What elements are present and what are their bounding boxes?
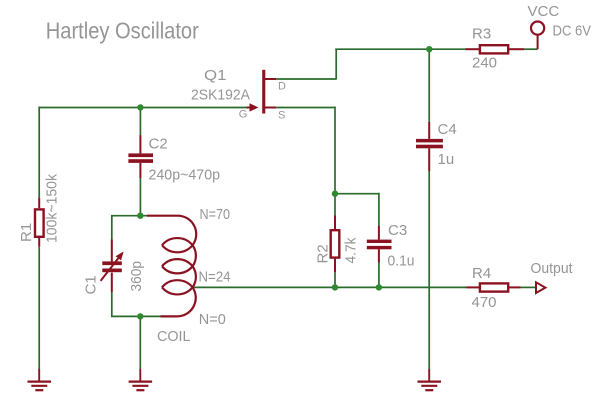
wire C2 branch upper	[139, 108, 141, 136]
wire C4 lower to ground	[428, 171, 430, 369]
svg-text:S: S	[278, 110, 285, 122]
svg-text:100k~150k: 100k~150k	[44, 174, 61, 243]
svg-text:Hartley Oscillator: Hartley Oscillator	[46, 17, 199, 43]
capacitor C4	[428, 122, 430, 171]
svg-text:0.1u: 0.1u	[388, 253, 415, 270]
node junction dot R2 bottom	[332, 284, 338, 290]
svg-text:DC 6V: DC 6V	[553, 22, 592, 39]
resistor R3	[466, 45, 525, 53]
svg-text:N=0: N=0	[199, 311, 226, 328]
svg-text:C4: C4	[438, 121, 457, 138]
transistor Q1 2SK192A	[247, 70, 277, 114]
node junction dot gate/C2	[137, 104, 143, 110]
wire coil bottom node left to C1 corner	[112, 292, 161, 316]
svg-text:360p: 360p	[128, 261, 145, 292]
resistor R4	[467, 283, 521, 291]
svg-text:COIL: COIL	[157, 328, 191, 345]
wire R3 to VCC	[524, 48, 538, 50]
svg-text:R4: R4	[472, 265, 491, 282]
svg-text:C2: C2	[149, 136, 168, 153]
wire drain vertical up	[335, 49, 337, 79]
svg-text:R1: R1	[18, 223, 35, 242]
output pin arrow	[536, 282, 545, 293]
ground under R1	[28, 369, 52, 390]
node junction dot top rail/C4	[426, 46, 432, 52]
wire left vertical to R1	[38, 107, 40, 198]
svg-text:1u: 1u	[438, 151, 455, 168]
capacitor C1 variable	[111, 240, 113, 293]
wire to C3 horizontal	[335, 193, 379, 195]
svg-text:N=24: N=24	[199, 269, 231, 286]
wire tap to R4	[193, 286, 467, 288]
inductor COIL	[147, 216, 196, 317]
svg-text:Q1: Q1	[204, 67, 227, 84]
wire coil bottom node to ground	[139, 316, 141, 369]
svg-text:240p~470p: 240p~470p	[149, 167, 221, 184]
svg-text:N=70: N=70	[200, 206, 231, 223]
resistor R1	[35, 198, 44, 247]
node junction dot coil top	[137, 213, 143, 219]
svg-text:240: 240	[472, 55, 497, 72]
svg-text:C3: C3	[388, 222, 407, 239]
node junction dot C3 bottom	[376, 284, 382, 290]
svg-text:470: 470	[472, 294, 497, 311]
ground under C4	[418, 369, 442, 390]
wire coil top node left to C1 corner	[112, 216, 147, 240]
wire C2 to coil node	[139, 178, 141, 216]
svg-text:D: D	[278, 80, 286, 92]
wire source vertical	[334, 107, 336, 216]
svg-text:R3: R3	[472, 26, 491, 43]
wire gate horizontal	[39, 107, 247, 109]
node junction dot source/R2 top	[332, 191, 338, 197]
capacitor C2	[139, 135, 141, 178]
svg-text:Output: Output	[531, 260, 574, 277]
svg-text:C1: C1	[82, 275, 99, 294]
svg-text:4.7k: 4.7k	[343, 237, 360, 263]
wire C3 bottom	[378, 263, 380, 288]
wire C3 vertical top	[378, 193, 380, 226]
wire drain horizontal	[276, 78, 336, 80]
wire top rail	[335, 48, 465, 50]
svg-text:VCC: VCC	[528, 3, 560, 20]
wire R4 to output arrow	[521, 286, 537, 288]
wire C4 upper	[428, 48, 430, 122]
node junction dot coil bottom	[137, 313, 143, 319]
ground under coil	[129, 369, 153, 390]
wire source to down corner	[276, 107, 335, 109]
resistor R2	[331, 216, 340, 273]
supply VCC	[537, 35, 539, 50]
svg-text:G: G	[239, 109, 248, 121]
capacitor C3	[378, 226, 380, 263]
svg-text:R2: R2	[315, 244, 332, 263]
wire R2 bottom	[334, 272, 336, 287]
svg-text:2SK192A: 2SK192A	[191, 86, 250, 103]
wire R1 bottom to ground	[38, 247, 40, 369]
